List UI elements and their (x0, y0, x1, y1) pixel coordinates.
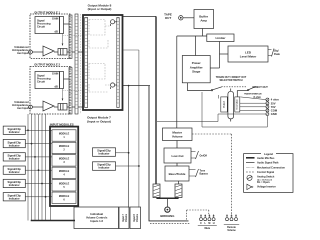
svg-text:M: M (208, 222, 210, 225)
svg-text:Peak: Peak (274, 53, 280, 56)
svg-text:GAIN: GAIN (52, 73, 58, 76)
svg-text:Aux Input: Aux Input (17, 52, 29, 55)
svg-text:Input 7: Input 7 (122, 214, 125, 222)
svg-text:Circuit: Circuit (37, 81, 45, 84)
svg-text:SELECTOR SWITCH: SELECTOR SWITCH (219, 79, 242, 82)
svg-text:Audio Mix Bus: Audio Mix Bus (257, 157, 275, 160)
svg-text:Control Signal: Control Signal (257, 171, 274, 174)
svg-text:Limiter: Limiter (215, 36, 226, 40)
svg-text:Amp: Amp (200, 19, 207, 23)
svg-text:Mechanical Connection: Mechanical Connection (257, 166, 285, 169)
svg-text:Volume: Volume (172, 135, 183, 139)
svg-text:Voltage Inverter: Voltage Inverter (257, 186, 276, 189)
svg-text:Volume Controls: Volume Controls (86, 215, 108, 219)
svg-text:70V: 70V (271, 105, 276, 109)
svg-text:OUT: OUT (165, 16, 172, 20)
svg-text:BRIDGING: BRIDGING (160, 214, 174, 218)
svg-text:Indicator: Indicator (99, 165, 110, 169)
svg-text:25V: 25V (271, 101, 276, 105)
svg-text:Indicator: Indicator (9, 157, 20, 161)
svg-text:Bypass: Bypass (200, 173, 209, 176)
svg-text:Volume: Volume (227, 229, 236, 232)
svg-text:(Input or Output): (Input or Output) (88, 7, 112, 11)
svg-text:Legend: Legend (264, 153, 273, 156)
svg-text:Indicator: Indicator (9, 143, 20, 147)
svg-text:GND: GND (271, 112, 277, 116)
svg-text:INPUT MODULES: INPUT MODULES (50, 123, 74, 127)
svg-text:4 ohm: 4 ohm (271, 98, 280, 102)
svg-text:Secondary: Secondary (237, 99, 239, 110)
svg-text:Indicator: Indicator (99, 151, 110, 155)
svg-text:C: C (200, 222, 202, 225)
svg-text:Analog Switch: Analog Switch (257, 175, 275, 178)
svg-text:dB: dB (55, 86, 59, 89)
svg-text:OUTPUT MODULE 2: OUTPUT MODULE 2 (34, 62, 60, 66)
svg-text:Bass/Treble: Bass/Treble (169, 172, 186, 176)
svg-text:GAIN: GAIN (52, 18, 58, 21)
svg-text:Stage: Stage (192, 70, 201, 74)
svg-text:Input 8: Input 8 (133, 214, 136, 222)
svg-text:Level Meter: Level Meter (240, 55, 257, 59)
svg-text:Circuit: Circuit (37, 26, 45, 29)
svg-text:Low-Cut: Low-Cut (172, 154, 184, 158)
svg-text:H: H (213, 222, 215, 225)
svg-text:On/Off: On/Off (200, 155, 208, 158)
svg-text:Dn = Open: Dn = Open (257, 181, 270, 184)
svg-text:DIRECT OUT: DIRECT OUT (253, 86, 269, 89)
svg-text:Output: Output (222, 101, 225, 108)
svg-text:COM: COM (271, 109, 278, 113)
svg-text:TRANSFORMER A/B: TRANSFORMER A/B (244, 92, 262, 95)
svg-text:Volume: Volume (137, 213, 139, 222)
svg-text:Indicator: Indicator (9, 130, 20, 134)
svg-text:Aux Input: Aux Input (17, 107, 29, 110)
svg-text:OUTPUT MODULE 1: OUTPUT MODULE 1 (34, 10, 60, 14)
svg-text:Indicator: Indicator (9, 183, 20, 187)
svg-text:Audio Signal Path: Audio Signal Path (257, 162, 279, 165)
svg-text:Indicator: Indicator (9, 170, 20, 174)
svg-text:Inputs 1-6: Inputs 1-6 (90, 219, 103, 223)
svg-text:dB: dB (55, 31, 59, 34)
svg-text:Individual: Individual (90, 212, 103, 216)
svg-text:Indicator: Indicator (9, 197, 20, 201)
svg-text:Mute: Mute (205, 227, 211, 230)
svg-text:8 ohm: 8 ohm (254, 96, 262, 99)
svg-text:(Input or Output): (Input or Output) (87, 119, 111, 123)
svg-text:Volume: Volume (126, 213, 128, 222)
